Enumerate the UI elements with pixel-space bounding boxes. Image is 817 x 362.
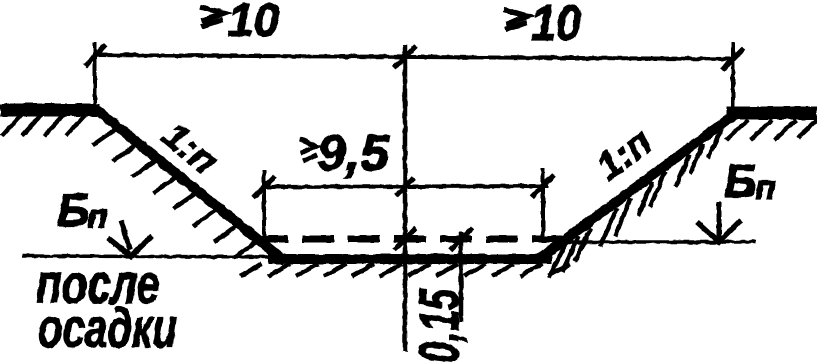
hatching along right slope <box>549 129 722 278</box>
hatching below left ground <box>2 114 86 136</box>
right slope <box>540 112 738 258</box>
svg-text:Б: Б <box>724 155 757 207</box>
svg-text:1:п: 1:п <box>154 114 225 183</box>
arrow left Bp <box>121 220 130 250</box>
hatching below trench bottom <box>240 264 570 276</box>
hatching below right ground <box>726 120 817 140</box>
arrow right Bp <box>717 202 722 238</box>
tick right <box>722 48 744 70</box>
svg-text:Б: Б <box>57 184 90 236</box>
svg-text:п: п <box>87 198 108 236</box>
dimension line >=10 <box>95 55 733 59</box>
dimension line >=9.5 <box>262 186 548 187</box>
hatching along left slope <box>93 127 259 258</box>
extension line 9.5 right <box>541 168 545 237</box>
tick left <box>85 45 106 66</box>
ground surface right <box>726 107 817 120</box>
tick center <box>394 46 416 68</box>
svg-text:осадки: осадки <box>38 296 177 359</box>
dimension line 0,15 <box>459 232 464 322</box>
svg-text:0,15: 0,15 <box>407 288 470 362</box>
extension line left <box>93 42 97 104</box>
trench bottom <box>268 254 552 264</box>
extension line 9.5 left <box>262 170 266 246</box>
svg-text:п: п <box>755 169 776 207</box>
ground surface left <box>0 104 100 117</box>
tick 9.5 right <box>532 175 554 197</box>
tick 0,15 left <box>394 228 416 250</box>
label >=10 right <box>504 10 528 30</box>
centerline <box>403 45 408 352</box>
label >=10 left <box>200 7 224 27</box>
label >=9,5 <box>300 139 317 162</box>
tick 9.5 left <box>253 176 275 198</box>
tick 9.5 center <box>396 178 414 196</box>
svg-text:9,5: 9,5 <box>317 125 390 181</box>
extension line right <box>731 42 735 110</box>
level line right <box>567 240 756 244</box>
level line after settlement left <box>22 256 292 257</box>
dashed settlement line <box>256 236 562 243</box>
svg-text:10: 10 <box>228 0 280 46</box>
left slope <box>92 106 286 262</box>
tick 0,15 right <box>450 228 472 250</box>
svg-text:10: 10 <box>531 0 581 51</box>
